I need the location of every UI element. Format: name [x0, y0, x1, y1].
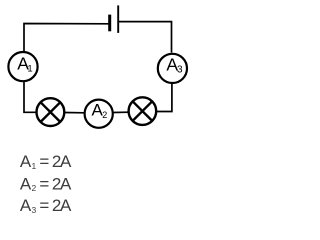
ammeter A3	[158, 54, 187, 83]
svg-text:2: 2	[102, 110, 107, 120]
lamp L2	[129, 97, 157, 125]
ammeter A2	[85, 100, 113, 128]
svg-text:3: 3	[177, 65, 183, 76]
ammeter A1	[8, 52, 37, 81]
svg-text:A2=2A: A2=2A	[20, 174, 72, 193]
wire: A1 down, corner, right to lamp L1	[24, 82, 36, 113]
lamp L1	[37, 98, 65, 126]
wire top-right: from battery right and down to ammeter A3	[119, 22, 172, 53]
svg-text:1: 1	[27, 63, 32, 74]
wire: lamp L2 right, corner, up to ammeter A3	[157, 84, 172, 112]
battery B1	[110, 5, 119, 33]
svg-text:A3=2A: A3=2A	[20, 196, 72, 215]
wire: lamp L1 to ammeter A2	[65, 112, 84, 114]
wire: ammeter A2 to lamp L2	[113, 111, 128, 113]
svg-text:A1=2A: A1=2A	[20, 152, 72, 171]
wire top-left: from ammeter A1 up and right to battery	[24, 24, 109, 52]
